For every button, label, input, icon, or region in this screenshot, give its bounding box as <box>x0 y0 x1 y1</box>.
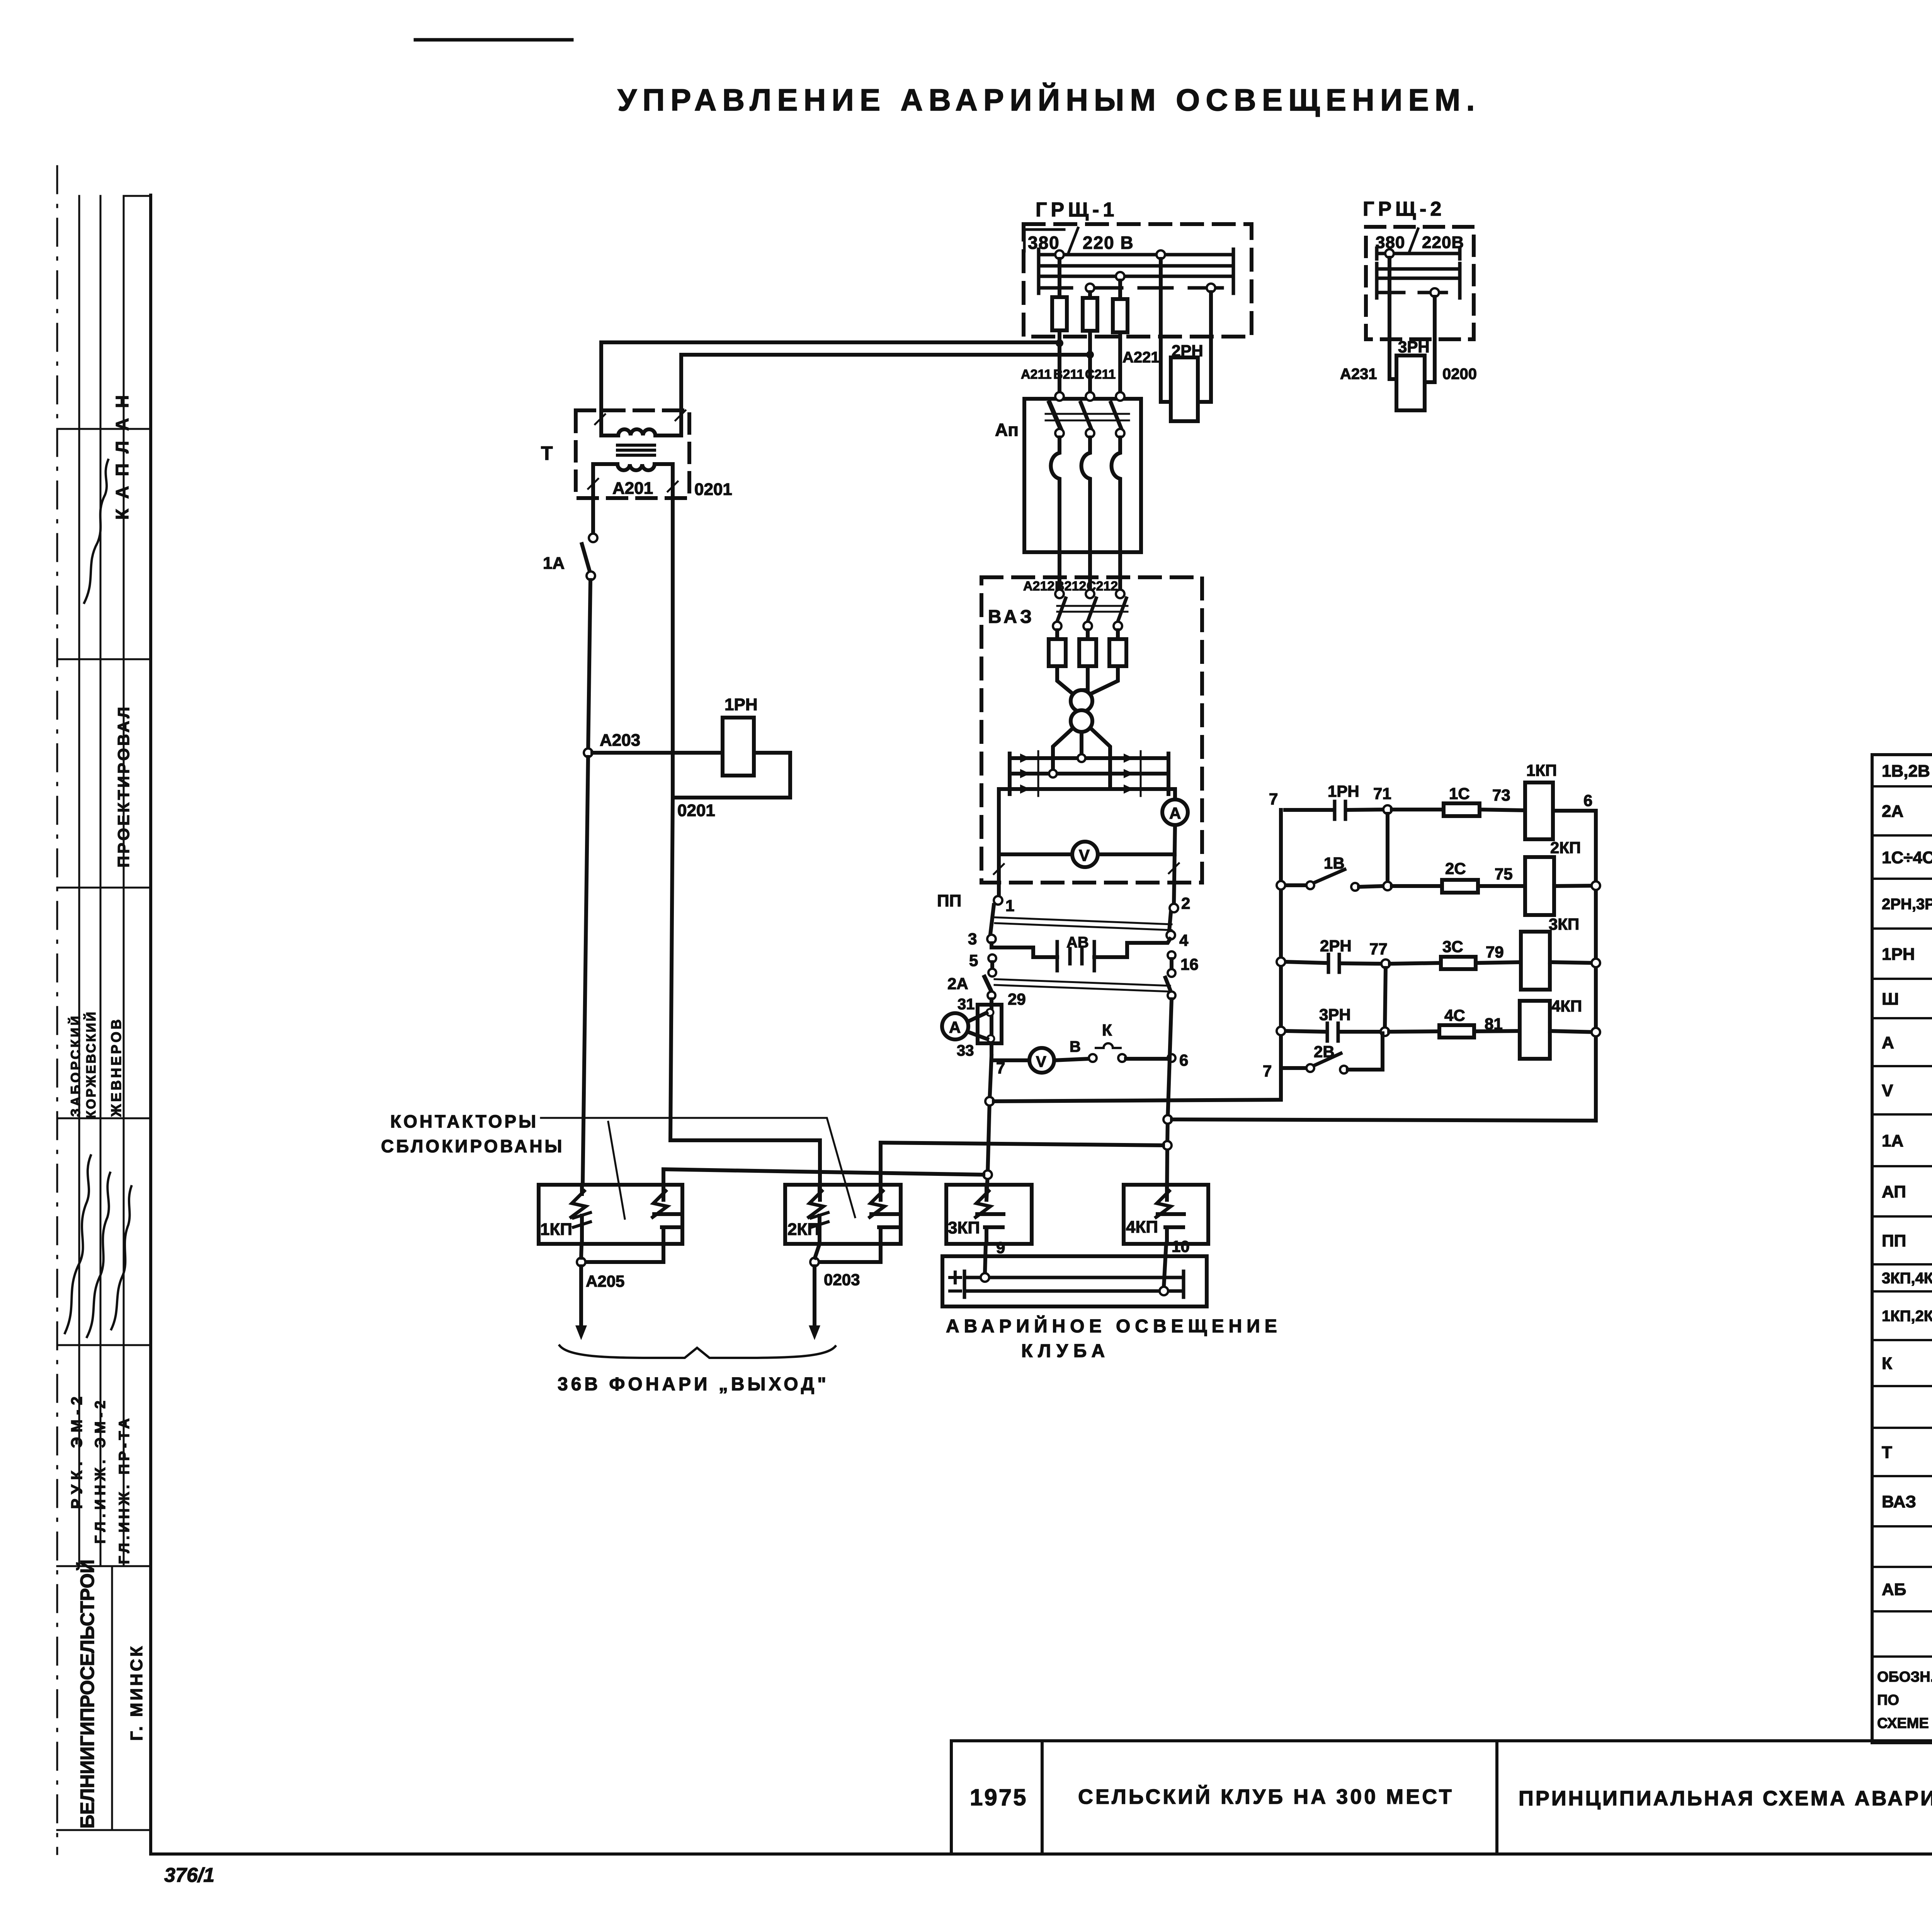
ВАЗ fuse 3 <box>1116 630 1120 639</box>
svg-text:В211: В211 <box>1053 367 1084 382</box>
4КП pole <box>1156 1185 1184 1244</box>
svg-text:А205: А205 <box>586 1272 624 1290</box>
ГРЩ-2 voltage label 380/220 В <box>1376 229 1464 252</box>
wire 0201 down <box>670 479 673 1140</box>
wire 0203 down arrow <box>813 1266 816 1329</box>
2А blade <box>985 977 992 992</box>
ВАЗ transformer lower winding <box>1071 710 1092 732</box>
wire node 7 to relay network <box>994 810 1281 1101</box>
svg-text:0200: 0200 <box>1442 366 1477 383</box>
svg-text:10: 10 <box>1172 1237 1190 1255</box>
svg-text:0203: 0203 <box>824 1271 860 1289</box>
svg-text:Т: Т <box>541 442 553 464</box>
svg-text:А221: А221 <box>1122 349 1160 366</box>
svg-text:29: 29 <box>1008 990 1026 1008</box>
svg-text:АП: АП <box>1882 1182 1906 1201</box>
svg-text:V: V <box>1079 846 1090 864</box>
node 2КП feed junction <box>1163 1141 1172 1150</box>
svg-text:4: 4 <box>1179 931 1189 949</box>
wire 7 to voltmeter <box>992 1058 1029 1062</box>
ГРЩ-2 bus N (dashed) <box>1377 287 1460 298</box>
svg-text:В: В <box>1070 1038 1081 1055</box>
svg-text:ОБОЗН.: ОБОЗН. <box>1877 1669 1932 1685</box>
svg-text:0201: 0201 <box>694 480 732 499</box>
svg-text:ГРЩ-1: ГРЩ-1 <box>1036 199 1118 221</box>
svg-text:6: 6 <box>1583 791 1592 810</box>
svg-text:376/1: 376/1 <box>164 1864 214 1886</box>
svg-text:1РН: 1РН <box>1328 782 1359 800</box>
svg-text:380: 380 <box>1028 233 1060 253</box>
leader to 1КП <box>608 1122 625 1219</box>
svg-text:А231: А231 <box>1340 366 1377 383</box>
right blade (16 side) <box>1165 978 1171 992</box>
wire А201 down to 1А <box>591 479 595 534</box>
ГРЩ-2 bus A <box>1377 248 1460 259</box>
terminal 4 <box>1167 931 1175 939</box>
svg-text:1С÷4С: 1С÷4С <box>1882 848 1932 867</box>
node 81 junction left <box>1381 1027 1389 1036</box>
svg-text:5: 5 <box>969 951 978 970</box>
svg-text:А: А <box>1882 1033 1894 1052</box>
svg-text:2: 2 <box>1181 894 1190 912</box>
ВАЗ transformer upper winding <box>1071 690 1092 712</box>
svg-text:3С: 3С <box>1442 937 1463 956</box>
ВАЗ dashed enclosure <box>981 577 1202 883</box>
svg-text:СЕЛЬСКИЙ КЛУБ НА 300 МЕСТ: СЕЛЬСКИЙ КЛУБ НА 300 МЕСТ <box>1078 1785 1454 1808</box>
Ап pole 3 <box>1111 392 1124 552</box>
ВАЗ switch blade 3 <box>1118 598 1126 621</box>
wire 1А to А203 node <box>588 580 590 753</box>
svg-text:4КП: 4КП <box>1126 1218 1158 1237</box>
svg-text:220В: 220В <box>1422 233 1464 252</box>
svg-text:31: 31 <box>957 996 975 1013</box>
ammeter А (main) <box>942 1013 968 1039</box>
svg-text:3: 3 <box>968 930 977 948</box>
svg-text:2РН: 2РН <box>1320 937 1352 955</box>
Ап pole 1 <box>1049 392 1064 552</box>
svg-text:9: 9 <box>996 1238 1005 1257</box>
node 29 <box>988 992 995 999</box>
ВАЗ fuse 2 <box>1086 630 1090 639</box>
wire voltmeter to В contact <box>1054 1059 1089 1060</box>
svg-text:ВАЗ: ВАЗ <box>988 607 1035 627</box>
svg-text:V: V <box>1036 1053 1046 1070</box>
junction dot B <box>1086 351 1094 359</box>
svg-text:Ап: Ап <box>995 420 1019 440</box>
node 6 return junction <box>1163 1115 1172 1124</box>
ГРЩ-1 voltage label 380/220 В <box>1024 228 1134 253</box>
stamp signature (Каплан) <box>84 460 108 603</box>
contact 5 <box>988 954 996 962</box>
wire bus A to 2РН <box>1161 259 1171 402</box>
plus bus <box>964 1271 1184 1284</box>
ВАЗ switch blade 2 <box>1088 598 1096 621</box>
ПП blade 2 <box>1169 913 1171 930</box>
svg-text:1КП: 1КП <box>1526 761 1557 779</box>
svg-text:73: 73 <box>1492 786 1510 804</box>
svg-text:ПП: ПП <box>937 891 961 910</box>
Ап box <box>1024 399 1141 552</box>
svg-text:СХЕМЕ: СХЕМЕ <box>1877 1715 1929 1732</box>
node 71 <box>1383 805 1392 814</box>
svg-text:КОНТАКТОРЫ: КОНТАКТОРЫ <box>390 1111 538 1131</box>
voltmeter V (main) <box>1029 1048 1054 1073</box>
ГРЩ-1 bus N (dashed) <box>1039 282 1233 293</box>
fuse F2 <box>1083 298 1097 331</box>
svg-text:2КП: 2КП <box>1550 839 1581 857</box>
svg-text:1В,2В: 1В,2В <box>1882 762 1930 781</box>
wire А203 to 1РН <box>592 751 723 755</box>
svg-text:1КП,2КП: 1КП,2КП <box>1882 1308 1932 1325</box>
svg-text:6: 6 <box>1179 1051 1188 1069</box>
svg-text:75: 75 <box>1495 865 1513 883</box>
brace <box>560 1345 835 1358</box>
left frame: dash-dot trim line <box>56 166 58 1854</box>
svg-text:Ш: Ш <box>1882 990 1899 1009</box>
leader to 2КП <box>541 1118 855 1217</box>
wire А205 down arrow <box>579 1266 583 1329</box>
ВАЗ input terminal 3 <box>1116 590 1124 598</box>
svg-text:7: 7 <box>1269 790 1278 808</box>
Ап trip bar <box>1046 413 1129 415</box>
wire А203 down to 1КП <box>583 757 588 1185</box>
svg-text:2А: 2А <box>947 975 968 993</box>
wire 2КП right feed <box>881 1143 1163 1200</box>
svg-text:2А: 2А <box>1882 802 1903 821</box>
svg-text:КАПЛАН: КАПЛАН <box>112 385 132 520</box>
svg-text:16: 16 <box>1180 955 1199 973</box>
2КП output loop <box>819 1244 881 1262</box>
wire 77 down to row4 <box>1385 968 1386 1027</box>
wire 1РН return to 0201 <box>673 753 790 798</box>
svg-text:ЗАБОРСКИЙ: ЗАБОРСКИЙ <box>68 1014 83 1117</box>
node right of 2А <box>1168 992 1175 999</box>
voltmeter V (charger) <box>1072 842 1098 867</box>
secondary winding <box>593 464 673 479</box>
ВАЗ switch bar <box>1057 605 1128 607</box>
1КП output loop <box>586 1244 663 1262</box>
svg-text:А212: А212 <box>1023 579 1054 594</box>
wire 1КП right feed <box>663 1169 983 1200</box>
ГРЩ-1 bus A <box>1039 249 1233 260</box>
node 7 junction <box>985 1097 994 1106</box>
ГРЩ-2 bus C <box>1377 273 1460 284</box>
slash marks secondary <box>588 479 598 489</box>
voltmeter wires <box>999 852 1072 856</box>
svg-text:1РН: 1РН <box>724 695 758 714</box>
node on bus N (2РН return) <box>1207 284 1215 292</box>
wire battery to 4 <box>1094 939 1170 957</box>
svg-text:ГЛ.ИНЖ. ПР-ТА: ГЛ.ИНЖ. ПР-ТА <box>116 1415 133 1564</box>
svg-text:К: К <box>1102 1021 1112 1039</box>
svg-text:71: 71 <box>1373 784 1391 803</box>
node on minus bus <box>1160 1287 1168 1295</box>
2А crossbar <box>995 979 1170 986</box>
ВАЗ switch blade 1 <box>1057 598 1066 621</box>
node 75 junction <box>1383 882 1392 890</box>
svg-text:ПО: ПО <box>1877 1692 1899 1708</box>
short rule above title <box>415 38 572 42</box>
ВАЗ input terminal 1 <box>1055 590 1064 598</box>
svg-text:1КП: 1КП <box>540 1220 572 1239</box>
ГРЩ-2 bus B <box>1377 264 1460 274</box>
ВАЗ input terminal 2 <box>1086 590 1094 598</box>
contact 1РН <box>1285 808 1332 812</box>
left frame row separators <box>57 428 151 430</box>
left frame top tick <box>124 195 151 197</box>
ГРЩ-2 dashed enclosure <box>1366 227 1474 339</box>
svg-text:3КП,4КП: 3КП,4КП <box>1882 1270 1932 1287</box>
svg-text:2С: 2С <box>1445 859 1466 878</box>
svg-text:А: А <box>949 1018 961 1036</box>
svg-text:1А: 1А <box>543 554 565 573</box>
wire К to node 6 <box>1126 1057 1170 1061</box>
terminal 1 <box>994 896 1002 905</box>
contact 16 <box>1168 951 1175 959</box>
svg-text:3РН: 3РН <box>1398 338 1430 356</box>
svg-text:ПП: ПП <box>1882 1232 1906 1250</box>
2КП left pole <box>809 1185 828 1244</box>
svg-text:79: 79 <box>1486 943 1504 961</box>
wire bus C to fuse F3 <box>1118 281 1122 299</box>
svg-text:АВАРИЙНОЕ ОСВЕЩЕНИЕ: АВАРИЙНОЕ ОСВЕЩЕНИЕ <box>946 1315 1282 1337</box>
wire 0200 to ЗРН <box>1425 297 1435 382</box>
ammeter А (charger) <box>1162 799 1188 825</box>
node DC junction <box>983 1170 992 1179</box>
wire fuse F3 down to Ап <box>1118 332 1122 396</box>
ПП crossbar <box>995 917 1172 924</box>
wire node 6 return from relay network <box>1172 811 1596 1121</box>
svg-text:А201: А201 <box>612 479 653 498</box>
wire fuse F2 down to Ап <box>1088 331 1092 396</box>
contact 2РН <box>1285 962 1326 963</box>
wire bus N to fuse F2 <box>1088 292 1092 298</box>
svg-text:ГРЩ-2: ГРЩ-2 <box>1363 198 1445 220</box>
ГРЩ-1 bus B <box>1039 260 1233 271</box>
feed wire A (to transformer) <box>601 342 1060 430</box>
ВАЗ fuse 1 <box>1055 630 1059 639</box>
svg-text:ГЛ.ИНЖ. ЭМ-2: ГЛ.ИНЖ. ЭМ-2 <box>92 1397 109 1544</box>
svg-text:ПРОЕКТИРОВАЛ: ПРОЕКТИРОВАЛ <box>114 704 133 867</box>
svg-text:1А: 1А <box>1882 1131 1903 1150</box>
relay ЗРН coil <box>1396 356 1425 410</box>
wire rectifier to ammeter <box>1168 789 1175 799</box>
wire 0203 jog to 2КП <box>670 1140 820 1200</box>
node on bus A (fuse 1) <box>1055 250 1064 259</box>
wires transformer to rectifier <box>1053 728 1073 774</box>
ВАЗ lower contact 2 <box>1083 622 1092 630</box>
terminal 2 <box>1170 904 1178 912</box>
svg-text:С211: С211 <box>1085 367 1116 382</box>
switch 1А <box>582 534 597 580</box>
svg-text:Т: Т <box>1882 1443 1892 1462</box>
relay 2РН coil <box>1171 357 1198 421</box>
node on bus C (fuse 3) <box>1116 272 1124 281</box>
plus sign <box>950 1276 961 1279</box>
slash marks primary <box>595 414 605 424</box>
Ап pole 2 <box>1081 392 1094 552</box>
ПП blade 1 <box>990 905 994 934</box>
svg-text:1РН: 1РН <box>1882 945 1915 964</box>
battery АВ <box>1057 942 1094 971</box>
ГРЩ-1 dashed enclosure <box>1024 224 1252 337</box>
svg-text:3РН: 3РН <box>1319 1005 1351 1024</box>
wire fuse F1 down to Ап <box>1058 330 1061 396</box>
node 77 <box>1381 959 1390 968</box>
minus bus <box>964 1285 1184 1297</box>
svg-text:АБ: АБ <box>1882 1580 1906 1599</box>
fuse F3 <box>1113 299 1128 332</box>
node on ГРЩ-2 bus N <box>1430 288 1439 297</box>
svg-text:Г. МИНСК: Г. МИНСК <box>127 1644 146 1741</box>
svg-text:2РН,3РН: 2РН,3РН <box>1882 896 1932 913</box>
svg-text:К: К <box>1882 1354 1892 1373</box>
wires fuses to transformer <box>1057 666 1073 694</box>
node on bus N (fuse 2) <box>1086 284 1094 292</box>
svg-text:3КП: 3КП <box>948 1218 980 1237</box>
minus sign <box>950 1289 961 1293</box>
svg-text:V: V <box>1882 1081 1893 1100</box>
wire 3КП to battery plus <box>985 1244 986 1273</box>
ВАЗ lower contact 3 <box>1114 622 1122 630</box>
svg-text:1: 1 <box>1005 896 1014 915</box>
node on plus bus <box>981 1273 989 1282</box>
svg-text:КЛУБА: КЛУБА <box>1021 1341 1110 1361</box>
wire 3 to battery <box>992 943 1057 957</box>
relay 1РН coil <box>723 718 754 776</box>
Т dashed enclosure <box>576 410 689 498</box>
2КП right pole <box>870 1185 898 1244</box>
wire 4КП to battery minus <box>1164 1244 1166 1286</box>
svg-text:1С: 1С <box>1449 784 1470 803</box>
ГРЩ-1 bus C <box>1039 271 1233 282</box>
svg-text:77: 77 <box>1369 940 1388 958</box>
feed wire B (to transformer) <box>681 355 1090 410</box>
contact 3РН <box>1285 1031 1325 1032</box>
terminal 3 <box>987 935 996 943</box>
wire rectifier left output <box>999 789 1010 895</box>
svg-text:ВАЗ: ВАЗ <box>1882 1492 1916 1511</box>
junction dot A <box>1056 339 1063 347</box>
svg-text:ПРИНЦИПИАЛЬНАЯ СХЕМА АВАРИЙНОГ: ПРИНЦИПИАЛЬНАЯ СХЕМА АВАРИЙНОГО ОСВЕЩЕНИ… <box>1519 1786 1932 1810</box>
wire bus A to fuse F1 <box>1058 259 1061 297</box>
bottom frame border <box>151 1852 1932 1856</box>
node on ГРЩ-2 bus A <box>1385 249 1394 258</box>
1КП right pole <box>653 1185 680 1244</box>
svg-text:ЖЕВНЕРОВ: ЖЕВНЕРОВ <box>108 1017 124 1117</box>
wire node 6 vertical <box>1167 999 1172 1200</box>
wire А231 to ЗРН <box>1389 258 1396 379</box>
rectifier junction nodes <box>1078 754 1085 762</box>
svg-text:4КП: 4КП <box>1551 997 1582 1015</box>
slash marks at ВАЗ outputs <box>994 864 1004 874</box>
left frame verticals <box>78 196 80 1566</box>
ammeter leads <box>968 1013 986 1022</box>
svg-text:33: 33 <box>957 1042 974 1059</box>
3КП pole <box>976 1185 1003 1244</box>
shunt Ш <box>978 1005 1002 1043</box>
wire ammeter down to terminal 2 <box>1174 825 1175 904</box>
fuse F1 <box>1052 297 1067 330</box>
svg-text:УПРАВЛЕНИЕ АВАРИЙНЫМ ОСВЕЩЕНИЕ: УПРАВЛЕНИЕ АВАРИЙНЫМ ОСВЕЩЕНИЕМ. <box>617 82 1481 117</box>
wire node 7 vertical <box>986 1056 992 1200</box>
svg-text:4С: 4С <box>1444 1006 1465 1024</box>
diode arrows <box>1020 754 1030 763</box>
stamp signatures (3) <box>65 1155 91 1333</box>
svg-text:СБЛОКИРОВАНЫ: СБЛОКИРОВАНЫ <box>381 1136 565 1156</box>
wire 71 down to 75 <box>1386 814 1389 882</box>
svg-text:7: 7 <box>1263 1062 1272 1080</box>
svg-text:А: А <box>1169 804 1181 822</box>
svg-text:1975: 1975 <box>970 1784 1027 1810</box>
rectifier bridge assembly <box>1010 751 1168 796</box>
node junctions on left vertical <box>1277 881 1285 890</box>
1КП left pole <box>571 1185 590 1244</box>
core <box>617 444 655 447</box>
svg-text:36В ФОНАРИ „ВЫХОД": 36В ФОНАРИ „ВЫХОД" <box>558 1374 829 1395</box>
ВАЗ lower contact 1 <box>1053 622 1061 630</box>
svg-text:РУК. ЭМ-2: РУК. ЭМ-2 <box>68 1392 85 1509</box>
svg-text:0201: 0201 <box>677 801 715 820</box>
svg-text:А211: А211 <box>1021 367 1051 382</box>
А203 node <box>584 748 592 757</box>
svg-text:220 В: 220 В <box>1083 233 1134 253</box>
wire bus N to 2РН <box>1198 292 1211 402</box>
svg-text:КОРЖЕВСКИЙ: КОРЖЕВСКИЙ <box>83 1010 99 1119</box>
svg-text:А203: А203 <box>600 731 640 750</box>
primary winding <box>601 410 681 435</box>
node on bus A (2РН feed) <box>1156 250 1165 259</box>
svg-text:2КП: 2КП <box>787 1220 820 1239</box>
svg-text:БЕЛНИИГИПРОСЕЛЬСТРОЙ: БЕЛНИИГИПРОСЕЛЬСТРОЙ <box>76 1560 98 1829</box>
svg-text:3КП: 3КП <box>1549 915 1579 933</box>
wires Ап to ВАЗ <box>1058 552 1061 590</box>
